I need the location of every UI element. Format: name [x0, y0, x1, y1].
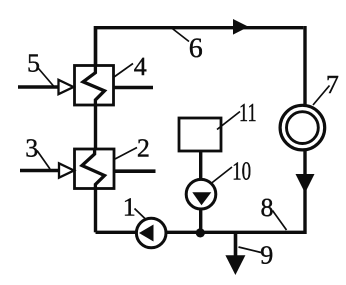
leader line for label 2 — [115, 148, 137, 160]
leader line for label 7 — [313, 86, 330, 106]
svg-text:7: 7 — [326, 70, 339, 99]
heat exchanger 2 outlet line — [114, 169, 156, 173]
instrument U7 double circle — [280, 105, 325, 150]
wire left pipe upper segment — [94, 26, 97, 66]
pump 10 circle — [186, 179, 216, 209]
svg-text:5: 5 — [27, 48, 40, 77]
leader line for label 10 — [211, 167, 232, 184]
leader line for label 11 — [217, 112, 240, 130]
svg-text:3: 3 — [25, 133, 38, 162]
svg-text:6: 6 — [189, 33, 203, 64]
wire 6 top pipe — [96, 28, 304, 105]
leader line for label 6 — [171, 28, 189, 42]
inlet line 3 — [20, 169, 59, 173]
junction node dot — [196, 228, 205, 237]
leader line for label 5 — [39, 69, 54, 87]
wire left pipe lower segment — [94, 188, 97, 233]
wire pump 10 to bottom pipe — [199, 208, 202, 233]
heat exchanger 2 zigzag coil — [82, 149, 105, 189]
heat exchanger 4 box — [75, 66, 114, 106]
wire left pipe middle segment — [94, 104, 97, 150]
flow arrow on pipe 6 — [233, 19, 249, 35]
svg-text:9: 9 — [260, 241, 273, 270]
leader line for label 3 — [37, 151, 50, 170]
pump 1 circle — [136, 218, 166, 248]
wire right descending pipe — [303, 26, 306, 106]
inlet open arrow 5 — [59, 80, 74, 94]
svg-text:11: 11 — [239, 98, 257, 127]
wire tank 11 to pump 10 — [199, 151, 202, 180]
svg-text:4: 4 — [134, 52, 147, 81]
leader line for label 8 — [273, 211, 287, 231]
svg-text:2: 2 — [137, 133, 150, 162]
pump 10 triangle — [192, 192, 211, 205]
flow arrow on pipe 8 — [296, 174, 315, 193]
wire 8 right lower pipe — [96, 150, 306, 233]
svg-text:1: 1 — [123, 193, 136, 222]
drain arrow 9 — [225, 255, 245, 275]
leader line for label 9 — [239, 247, 262, 253]
drain line 9 — [234, 232, 238, 258]
pump 1 triangle — [139, 225, 154, 242]
leader line for label 4 — [114, 64, 133, 78]
expansion tank 11 box — [179, 118, 221, 151]
svg-text:8: 8 — [261, 193, 274, 222]
leader line for label 1 — [135, 209, 147, 221]
heat exchanger 4 outlet line — [114, 86, 154, 90]
heat exchanger 2 box — [75, 149, 115, 189]
svg-text:10: 10 — [232, 156, 251, 185]
inlet line 5 — [18, 85, 59, 89]
inlet open arrow 3 — [59, 163, 74, 177]
heat exchanger 4 zigzag coil — [83, 66, 104, 106]
